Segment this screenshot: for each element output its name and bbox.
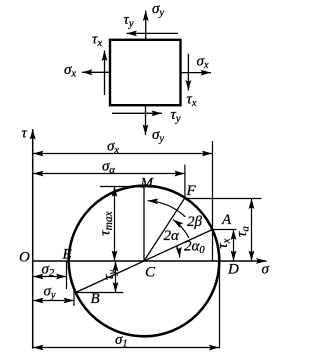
dimension sigma_alpha	[33, 173, 185, 175]
tau axis	[32, 129, 34, 349]
svg-text:σ: σ	[262, 262, 270, 278]
dimension sigma_1	[33, 347, 219, 349]
dimension sigma_y	[33, 300, 74, 302]
tau_y bottom arrow	[112, 112, 162, 114]
radius wire C to M	[143, 186, 145, 261]
B-level extension line	[76, 292, 124, 294]
sigma_y top arrow	[145, 11, 147, 40]
tau_y top arrow	[127, 32, 179, 34]
svg-text:C: C	[145, 265, 156, 281]
stress element square	[110, 40, 181, 105]
E tick line	[66, 261, 68, 289]
dimension sigma_x	[33, 153, 212, 155]
dimension tau_x	[233, 230, 235, 262]
dimension tau_max	[114, 186, 116, 261]
F-level extension line	[185, 198, 262, 200]
dimension tau_a	[251, 199, 253, 262]
tau_x left arrow	[104, 51, 106, 96]
A vertical extension line	[212, 141, 214, 261]
radius wire C to F	[144, 198, 185, 261]
svg-text:2α: 2α	[164, 228, 181, 244]
svg-text:E: E	[62, 247, 72, 263]
B tick line	[73, 288, 75, 307]
D vertical extension line	[219, 261, 221, 349]
svg-text:A: A	[221, 212, 232, 228]
diameter wire B to A	[76, 230, 213, 293]
sigma_x right arrow	[181, 72, 212, 74]
sigma_x left arrow	[82, 71, 110, 73]
sigma_y bottom arrow	[145, 105, 147, 135]
angle arc 2alpha0	[177, 246, 180, 258]
Mohr circle	[69, 186, 220, 337]
svg-text:D: D	[227, 262, 239, 278]
svg-text:2β: 2β	[187, 214, 203, 230]
svg-text:B: B	[91, 291, 100, 307]
dimension sigma_2	[33, 276, 67, 278]
svg-text:τ: τ	[22, 126, 28, 142]
svg-text:F: F	[186, 183, 197, 199]
M-level extension line	[100, 186, 147, 188]
A-level extension line	[212, 229, 236, 231]
angle arc 2beta	[148, 201, 186, 217]
F vertical extension line	[184, 165, 186, 198]
sigma axis	[32, 260, 266, 262]
angle arc 2alpha	[173, 220, 189, 239]
dimension tau_y	[115, 261, 117, 293]
tau_x right arrow	[187, 54, 189, 91]
svg-text:M: M	[140, 176, 155, 192]
svg-text:O: O	[19, 250, 30, 266]
